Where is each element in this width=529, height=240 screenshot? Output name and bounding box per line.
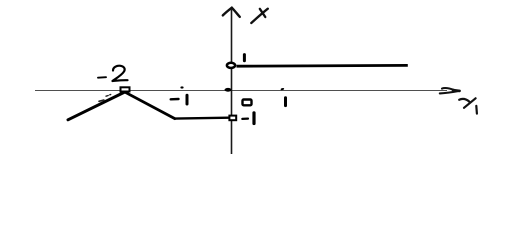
open square at (-2,0): [121, 87, 130, 91]
label 1 at y=1: [243, 55, 246, 61]
tick dot at x=1: [280, 88, 284, 91]
y-axis arrowhead: [223, 8, 240, 17]
x-axis arrowhead: [440, 88, 460, 93]
label -1 at y=-1: [242, 113, 254, 124]
y label: [251, 9, 267, 23]
label -1 at x=-1: [171, 95, 187, 104]
origin dot: [225, 88, 232, 92]
tick dot at x=-1: [180, 86, 183, 88]
label 1 at x=1: [284, 98, 287, 106]
x label: [459, 98, 477, 113]
label 0: [243, 100, 252, 106]
open circle at (0,1): [227, 63, 235, 68]
segment horizontal y=1: [237, 64, 408, 68]
segment apex to corner: [125, 92, 175, 119]
label -2: [98, 66, 128, 81]
y-axis: [231, 10, 233, 155]
x-axis: [35, 90, 447, 92]
open square at (0,-1): [229, 116, 236, 121]
segment horizontal y=-1: [175, 116, 229, 119]
segment left ray: [68, 92, 125, 120]
scribble near apex: [99, 95, 111, 102]
